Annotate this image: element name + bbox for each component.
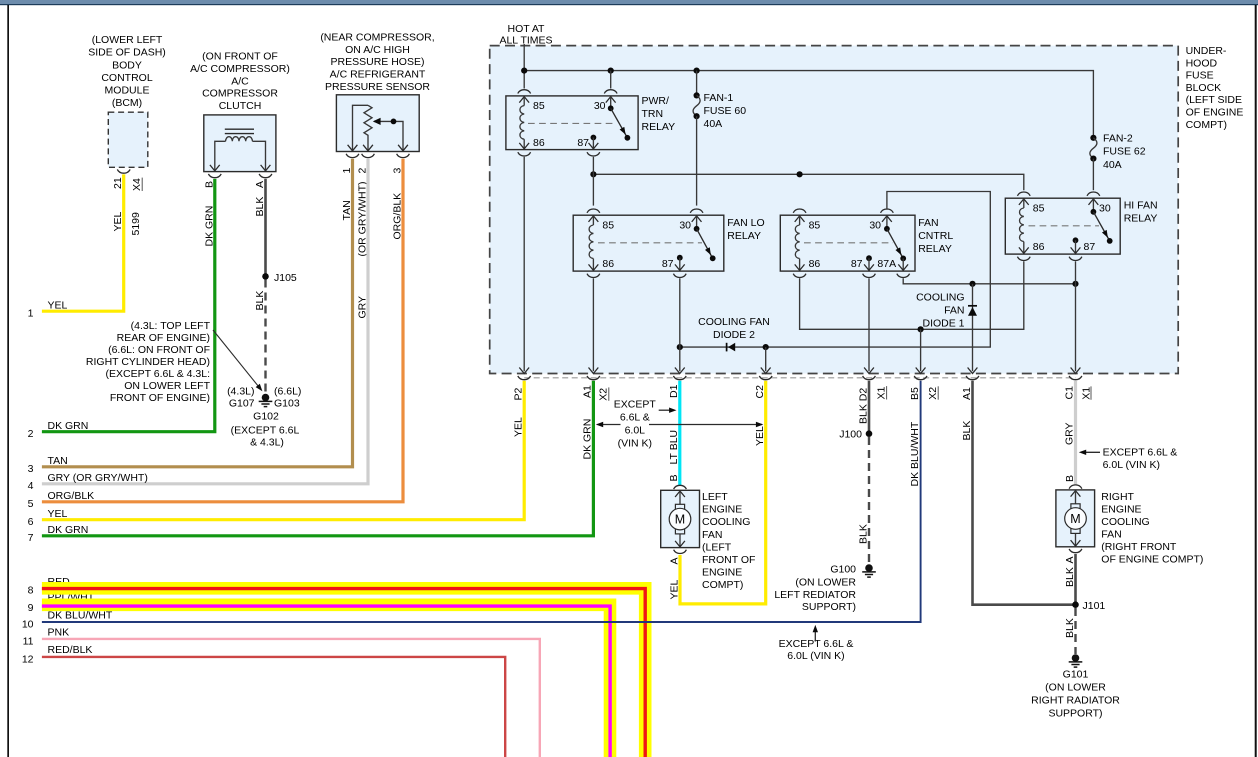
svg-text:BODY: BODY bbox=[112, 59, 142, 71]
svg-text:(EXCEPT 6.6L & 4.3L:: (EXCEPT 6.6L & 4.3L: bbox=[106, 368, 210, 380]
junction dot bus/relay30 bbox=[608, 68, 614, 74]
svg-text:85: 85 bbox=[809, 220, 821, 232]
svg-text:YEL: YEL bbox=[513, 417, 525, 437]
svg-text:DK GRN: DK GRN bbox=[48, 524, 89, 536]
arrow note to D1 bbox=[659, 409, 671, 411]
ground G102 / G107 / G103 bbox=[259, 394, 273, 407]
svg-text:M: M bbox=[675, 513, 685, 527]
svg-text:GRY: GRY bbox=[1063, 422, 1075, 445]
svg-text:REAR OF ENGINE): REAR OF ENGINE) bbox=[117, 332, 210, 344]
wire BLK right fan A to J101 bbox=[1074, 554, 1077, 605]
svg-text:DIODE 1: DIODE 1 bbox=[922, 318, 964, 330]
pin labels FAN CNTRL 85 30 86 87 87A bbox=[809, 220, 896, 271]
wire FAN CNTRL 87 down to BLK D2 bbox=[868, 278, 870, 371]
connector sockets bbox=[518, 376, 1082, 380]
pin 87 FAN LO bbox=[677, 255, 683, 261]
junction dot bus/fuse60 bbox=[694, 68, 700, 74]
svg-text:COOLING: COOLING bbox=[1101, 516, 1149, 528]
svg-text:COMPT): COMPT) bbox=[1186, 119, 1227, 131]
svg-text:ENGINE: ENGINE bbox=[702, 567, 742, 579]
svg-text:BLK: BLK bbox=[961, 421, 973, 441]
label LEFT ENGINE COOLING FAN bbox=[702, 491, 755, 591]
relay FAN CNTRL RELAY bbox=[780, 209, 953, 277]
svg-text:(6.6L): (6.6L) bbox=[274, 386, 301, 398]
svg-text:BLK: BLK bbox=[1064, 618, 1076, 638]
svg-text:6.6L &: 6.6L & bbox=[620, 412, 650, 424]
svg-text:(4.3L: TOP LEFT: (4.3L: TOP LEFT bbox=[131, 320, 211, 332]
label FAN LO RELAY bbox=[727, 217, 764, 242]
svg-text:UNDER-: UNDER- bbox=[1186, 45, 1227, 57]
wire PWR/TRN 86 down to P2 bbox=[523, 157, 525, 371]
svg-text:X2: X2 bbox=[927, 387, 939, 400]
svg-text:7: 7 bbox=[28, 532, 34, 544]
page right border bbox=[1255, 5, 1257, 757]
svg-text:SIDE OF DASH): SIDE OF DASH) bbox=[88, 47, 166, 59]
diode COOLING FAN DIODE 1 bbox=[968, 284, 977, 371]
wire FAN CNTRL 87A to HI FAN 87 bbox=[903, 278, 1075, 284]
svg-text:FRONT OF: FRONT OF bbox=[702, 554, 755, 566]
svg-text:(ON FRONT OF: (ON FRONT OF bbox=[202, 51, 278, 63]
label BODY CONTROL MODULE (BCM) bbox=[88, 34, 166, 109]
svg-text:RELAY: RELAY bbox=[1124, 213, 1158, 225]
svg-text:FAN LO: FAN LO bbox=[727, 217, 764, 229]
svg-text:B: B bbox=[668, 474, 680, 481]
svg-text:FAN-2: FAN-2 bbox=[1103, 133, 1133, 145]
svg-text:40A: 40A bbox=[704, 118, 723, 130]
label UNDER-HOOD FUSE BLOCK bbox=[1186, 45, 1244, 131]
svg-text:86: 86 bbox=[533, 137, 545, 149]
arrow note to G102 bbox=[213, 330, 260, 388]
label A/C COMPRESSOR CLUTCH bbox=[190, 51, 290, 113]
wire BLK dashed J101 to G101 bbox=[1074, 608, 1076, 654]
svg-text:87: 87 bbox=[662, 258, 674, 270]
junction J100 bbox=[866, 430, 873, 437]
svg-text:(EXCEPT 6.6L: (EXCEPT 6.6L bbox=[231, 425, 300, 437]
svg-text:CLUTCH: CLUTCH bbox=[219, 100, 262, 112]
svg-text:SUPPORT): SUPPORT) bbox=[802, 601, 856, 613]
svg-text:ORG/BLK: ORG/BLK bbox=[48, 490, 95, 502]
svg-text:ON A/C HIGH: ON A/C HIGH bbox=[345, 44, 410, 56]
wire 11 PNK bbox=[42, 639, 540, 757]
svg-text:FUSE 62: FUSE 62 bbox=[1103, 146, 1146, 158]
junction dot diode2 right / C2 tap bbox=[763, 344, 769, 350]
svg-text:HOOD: HOOD bbox=[1186, 57, 1218, 69]
svg-text:HOT AT: HOT AT bbox=[508, 23, 546, 35]
svg-text:J105: J105 bbox=[274, 272, 297, 284]
note engine ground locations bbox=[86, 320, 211, 404]
svg-text:COMPT): COMPT) bbox=[702, 579, 743, 591]
svg-text:J100: J100 bbox=[839, 429, 862, 441]
svg-text:6.0L (VIN K): 6.0L (VIN K) bbox=[787, 650, 844, 662]
wire 8 RED highlighted bbox=[42, 588, 645, 757]
wire YEL C2 to left fan A bbox=[680, 381, 766, 604]
wire LT BLU D1 to left fan bbox=[678, 381, 681, 485]
pin 87 HI FAN bbox=[1073, 237, 1079, 243]
wire FAN LO 87 down to D1 bbox=[679, 278, 681, 371]
svg-text:1: 1 bbox=[28, 308, 34, 320]
svg-text:86: 86 bbox=[809, 258, 821, 270]
svg-text:COMPRESSOR: COMPRESSOR bbox=[202, 88, 278, 100]
junction J101 bbox=[1072, 601, 1079, 608]
connector sockets sensor pins 1 2 3 bbox=[346, 154, 359, 158]
svg-text:FRONT OF ENGINE): FRONT OF ENGINE) bbox=[110, 392, 210, 404]
wire BLK compressor A to J105 bbox=[264, 179, 267, 277]
svg-text:ENGINE: ENGINE bbox=[1101, 504, 1141, 516]
svg-text:30: 30 bbox=[1099, 203, 1111, 215]
pin 87 FAN CNTRL bbox=[866, 255, 872, 261]
fuse FAN-1 FUSE 60 40A bbox=[693, 71, 700, 206]
svg-text:YEL: YEL bbox=[669, 579, 681, 599]
wire 3 TAN sensor 1 to edge bbox=[42, 159, 353, 467]
svg-text:EXCEPT 6.6L &: EXCEPT 6.6L & bbox=[779, 638, 854, 650]
svg-text:G100: G100 bbox=[830, 564, 856, 576]
svg-text:DK GRN: DK GRN bbox=[582, 419, 594, 460]
svg-text:OF ENGINE: OF ENGINE bbox=[1186, 107, 1244, 119]
svg-text:X4: X4 bbox=[131, 178, 143, 191]
svg-text:(ON LOWER: (ON LOWER bbox=[1045, 681, 1106, 693]
pin 30 PWR/TRN bbox=[604, 90, 617, 94]
wire FAN CNTRL 30 loop to diode 2 row bbox=[680, 192, 991, 348]
svg-text:YEL: YEL bbox=[48, 508, 68, 520]
label FAN-1 FUSE 60 40A bbox=[704, 92, 747, 130]
pin labels FAN LO 85 30 86 87 bbox=[602, 220, 691, 271]
junction dot 87A row / HI FAN 87 bbox=[1072, 281, 1078, 287]
svg-text:(VIN K): (VIN K) bbox=[618, 437, 652, 449]
svg-text:PWR/: PWR/ bbox=[642, 95, 669, 107]
svg-text:DK BLU/WHT: DK BLU/WHT bbox=[48, 610, 113, 622]
component A/C refrigerant pressure sensor bbox=[336, 95, 419, 152]
fuse FAN-2 FUSE 62 40A bbox=[1090, 135, 1097, 191]
svg-text:A/C COMPRESSOR): A/C COMPRESSOR) bbox=[190, 63, 290, 75]
junction dot bus/feed bbox=[521, 68, 527, 74]
wire 10 DK BLU/WHT edge to B5 bbox=[42, 381, 921, 622]
svg-text:87A: 87A bbox=[877, 258, 896, 270]
svg-text:FAN: FAN bbox=[1101, 528, 1121, 540]
svg-text:(BCM): (BCM) bbox=[112, 97, 142, 109]
junction dot 86 net / B5 tap bbox=[918, 326, 924, 332]
wire 7 DK GRN A1 to edge bbox=[42, 381, 594, 536]
svg-text:G102: G102 bbox=[253, 411, 279, 423]
svg-text:85: 85 bbox=[1033, 203, 1045, 215]
svg-text:PRESSURE SENSOR: PRESSURE SENSOR bbox=[325, 81, 430, 93]
relay HI FAN RELAY bbox=[1005, 192, 1157, 260]
svg-text:(ON LOWER: (ON LOWER bbox=[795, 576, 856, 588]
label HI FAN RELAY bbox=[1124, 200, 1158, 225]
svg-text:DK BLU/WHT: DK BLU/WHT bbox=[909, 421, 921, 486]
svg-text:87: 87 bbox=[1084, 241, 1096, 253]
svg-text:CONTROL: CONTROL bbox=[101, 72, 152, 84]
motor M2 right engine cooling fan bbox=[1056, 485, 1095, 553]
window top strip bbox=[0, 0, 1258, 4]
svg-text:5: 5 bbox=[28, 498, 34, 510]
wire C2 stub bbox=[765, 347, 767, 371]
svg-text:SUPPORT): SUPPORT) bbox=[1048, 707, 1102, 719]
svg-text:2: 2 bbox=[28, 428, 34, 440]
wire top supply bus bbox=[524, 71, 1093, 137]
arrow note to GRY wire bbox=[1082, 451, 1101, 453]
svg-text:85: 85 bbox=[602, 220, 614, 232]
svg-text:LT BLU: LT BLU bbox=[668, 430, 680, 465]
wire B5 stub bbox=[920, 329, 922, 371]
svg-text:A/C REFRIGERANT: A/C REFRIGERANT bbox=[330, 69, 426, 81]
wire hot feed into fuse block bbox=[523, 44, 525, 89]
wire FAN LO 86 down to A1 bbox=[592, 278, 594, 371]
svg-text:12: 12 bbox=[22, 654, 34, 666]
arrow note to A1 and C2 bbox=[598, 424, 621, 426]
svg-text:87: 87 bbox=[577, 137, 589, 149]
svg-text:BLK: BLK bbox=[254, 291, 266, 311]
svg-text:HI FAN: HI FAN bbox=[1124, 200, 1158, 212]
page left border bbox=[7, 5, 9, 757]
connector sockets compressor pins B A bbox=[208, 174, 221, 178]
svg-text:6.0L (VIN K): 6.0L (VIN K) bbox=[1103, 459, 1160, 471]
svg-text:GRY (OR GRY/WHT): GRY (OR GRY/WHT) bbox=[48, 472, 148, 484]
wire GRY C1 to right fan bbox=[1074, 381, 1077, 485]
wire 1 YEL BCM to edge bbox=[42, 174, 124, 311]
pin labels PWR/TRN 85 30 86 87 bbox=[533, 100, 606, 149]
note EXCEPT 6.6L 6.0L (VIN K) left bbox=[614, 399, 657, 450]
wire BLK dashed J100 to G100 bbox=[868, 437, 870, 564]
label FAN-2 FUSE 62 40A bbox=[1103, 133, 1146, 172]
svg-text:RELAY: RELAY bbox=[642, 121, 676, 133]
svg-text:BLOCK: BLOCK bbox=[1186, 82, 1222, 94]
module U1 BCM (dashed connector box) bbox=[108, 112, 148, 167]
svg-text:G103: G103 bbox=[274, 398, 300, 410]
svg-text:(LEFT SIDE: (LEFT SIDE bbox=[1186, 94, 1242, 106]
label COOLING FAN DIODE 2 bbox=[698, 316, 770, 341]
svg-text:J101: J101 bbox=[1083, 600, 1106, 612]
svg-text:6.0L: 6.0L bbox=[625, 425, 646, 437]
wire HI FAN 87 down to C1 bbox=[1075, 261, 1077, 371]
wire bus to PWR/TRN pin 30 bbox=[610, 71, 612, 89]
wire 6 YEL P2 to edge bbox=[42, 381, 524, 520]
svg-text:RIGHT: RIGHT bbox=[1101, 491, 1134, 503]
svg-text:COOLING FAN: COOLING FAN bbox=[698, 316, 770, 328]
svg-text:30: 30 bbox=[869, 220, 881, 232]
junction J105 bbox=[262, 273, 269, 280]
svg-text:RELAY: RELAY bbox=[727, 230, 761, 242]
pin 87A FAN CNTRL bbox=[900, 256, 906, 262]
svg-text:FAN: FAN bbox=[918, 217, 938, 229]
ground G100 bbox=[862, 564, 876, 577]
svg-text:COOLING: COOLING bbox=[702, 516, 750, 528]
svg-text:3: 3 bbox=[28, 463, 34, 475]
junction dot 87A row / diode 1 bbox=[969, 281, 975, 287]
svg-text:ENGINE: ENGINE bbox=[702, 504, 742, 516]
svg-text:BLK D2: BLK D2 bbox=[857, 388, 869, 424]
svg-text:86: 86 bbox=[1033, 241, 1045, 253]
arrow note to wire 10 bbox=[814, 629, 816, 642]
svg-text:LEFT REDIATOR: LEFT REDIATOR bbox=[774, 589, 856, 601]
svg-text:ON LOWER LEFT: ON LOWER LEFT bbox=[124, 380, 210, 392]
svg-text:RED/BLK: RED/BLK bbox=[48, 644, 93, 656]
svg-text:(LOWER LEFT: (LOWER LEFT bbox=[92, 34, 163, 46]
connector row arrows at fuse block border bbox=[519, 368, 1080, 374]
svg-text:ALL TIMES: ALL TIMES bbox=[499, 35, 552, 47]
svg-text:A/C: A/C bbox=[231, 75, 249, 87]
wire 12 RED/BLK bbox=[42, 657, 505, 757]
svg-text:40A: 40A bbox=[1103, 159, 1122, 171]
wire relay coil bus (87 of PWR/TRN to 85 pins) bbox=[593, 174, 1023, 190]
label COOLING FAN DIODE 1 bbox=[916, 292, 965, 330]
wire BLK A1 to J101 bbox=[973, 381, 1074, 605]
svg-text:30: 30 bbox=[594, 100, 606, 112]
svg-text:YEL: YEL bbox=[754, 426, 766, 446]
svg-text:G101: G101 bbox=[1063, 668, 1089, 680]
svg-text:87: 87 bbox=[851, 258, 863, 270]
svg-text:YEL: YEL bbox=[48, 300, 68, 312]
junction dot coil bus left bbox=[590, 171, 596, 177]
wire BLK D2 to J100 bbox=[868, 381, 871, 434]
relay PWR/TRN RELAY bbox=[506, 90, 675, 156]
svg-text:RELAY: RELAY bbox=[918, 243, 952, 255]
svg-text:RIGHT RADIATOR: RIGHT RADIATOR bbox=[1031, 695, 1120, 707]
note EXCEPT 6.6L 6.0L (VIN K) right bbox=[1103, 447, 1178, 472]
label PWR/TRN RELAY bbox=[642, 95, 676, 133]
motor M1 left engine cooling fan bbox=[661, 485, 700, 553]
junction dot coil bus / fan cntrl 85 bbox=[797, 171, 803, 177]
pin 30 FAN LO bbox=[690, 209, 703, 213]
svg-text:FUSE 60: FUSE 60 bbox=[704, 105, 747, 117]
svg-text:5199: 5199 bbox=[130, 212, 142, 236]
svg-text:DIODE 2: DIODE 2 bbox=[713, 329, 755, 341]
junction dot diode2 left / FAN LO 87 bbox=[677, 344, 683, 350]
svg-text:B5: B5 bbox=[909, 387, 921, 400]
label A/C REFRIGERANT PRESSURE SENSOR bbox=[320, 31, 434, 93]
svg-text:10: 10 bbox=[22, 619, 34, 631]
svg-text:(RIGHT FRONT: (RIGHT FRONT bbox=[1101, 541, 1177, 553]
svg-text:FAN-1: FAN-1 bbox=[704, 92, 734, 104]
node HOT AT ALL TIMES label bbox=[499, 23, 552, 47]
svg-text:A1: A1 bbox=[582, 385, 594, 398]
svg-text:OF ENGINE COMPT): OF ENGINE COMPT) bbox=[1101, 553, 1203, 565]
svg-text:8: 8 bbox=[28, 585, 34, 597]
svg-text:(NEAR COMPRESSOR,: (NEAR COMPRESSOR, bbox=[320, 31, 434, 43]
ground G101 bbox=[1069, 654, 1083, 667]
svg-text:A: A bbox=[669, 557, 681, 564]
svg-text:B: B bbox=[1064, 475, 1076, 482]
svg-text:PNK: PNK bbox=[48, 626, 70, 638]
svg-text:RIGHT CYLINDER HEAD): RIGHT CYLINDER HEAD) bbox=[86, 356, 210, 368]
svg-text:M: M bbox=[1070, 512, 1080, 526]
svg-text:(6.6L: ON FRONT OF: (6.6L: ON FRONT OF bbox=[108, 344, 210, 356]
underhood fuse block (dashed blue box) bbox=[490, 46, 1178, 374]
svg-text:& 4.3L): & 4.3L) bbox=[250, 437, 284, 449]
svg-text:EXCEPT 6.6L &: EXCEPT 6.6L & bbox=[1103, 447, 1178, 459]
svg-text:FAN: FAN bbox=[702, 529, 722, 541]
svg-text:4: 4 bbox=[28, 480, 34, 492]
wire 2 DK GRN compressor B to edge bbox=[42, 179, 215, 432]
wire 9 PPL/WHT highlighted bbox=[42, 605, 610, 757]
svg-text:CNTRL: CNTRL bbox=[918, 230, 953, 242]
connector strip dashed line bbox=[524, 377, 1075, 379]
wire FAN CNTRL 86 to HI FAN 86 bbox=[800, 261, 1024, 329]
svg-text:9: 9 bbox=[28, 602, 34, 614]
svg-text:(LEFT: (LEFT bbox=[702, 541, 732, 553]
wire 5 ORG/BLK sensor 3 to edge bbox=[42, 159, 403, 502]
svg-text:BLK: BLK bbox=[857, 524, 869, 544]
svg-text:PRESSURE HOSE): PRESSURE HOSE) bbox=[331, 56, 425, 68]
svg-text:86: 86 bbox=[602, 258, 614, 270]
label FAN CNTRL RELAY bbox=[918, 217, 953, 255]
svg-text:30: 30 bbox=[679, 220, 691, 232]
pin labels HI FAN 85 30 86 87 bbox=[1033, 203, 1111, 254]
note EXCEPT 6.6L 6.0L (VIN K) bottom bbox=[779, 638, 854, 662]
svg-text:85: 85 bbox=[533, 100, 545, 112]
svg-text:MODULE: MODULE bbox=[105, 85, 150, 97]
wire BLK dashed J105 to G102 bbox=[264, 280, 266, 393]
svg-text:X2: X2 bbox=[598, 388, 610, 401]
svg-text:DK GRN: DK GRN bbox=[48, 420, 89, 432]
component A/C compressor clutch coil bbox=[204, 115, 276, 172]
svg-text:FUSE: FUSE bbox=[1186, 70, 1214, 82]
label RIGHT ENGINE COOLING FAN bbox=[1101, 491, 1203, 565]
svg-text:C1: C1 bbox=[1063, 386, 1075, 400]
relay FAN LO RELAY bbox=[573, 209, 764, 277]
svg-text:11: 11 bbox=[23, 636, 34, 648]
svg-text:FAN: FAN bbox=[944, 305, 964, 317]
wire 4 GRY sensor 2 to edge bbox=[42, 159, 368, 484]
svg-text:EXCEPT: EXCEPT bbox=[614, 399, 657, 411]
svg-text:6: 6 bbox=[28, 516, 34, 528]
svg-text:(4.3L): (4.3L) bbox=[227, 386, 254, 398]
pin 30 FAN CNTRL bbox=[881, 209, 894, 213]
svg-text:COOLING: COOLING bbox=[916, 292, 964, 304]
svg-text:G107: G107 bbox=[229, 398, 255, 410]
diode COOLING FAN DIODE 2 bbox=[727, 343, 736, 352]
svg-text:LEFT: LEFT bbox=[702, 491, 728, 503]
svg-text:X1: X1 bbox=[875, 386, 887, 399]
connector socket BCM pin 21 bbox=[117, 169, 130, 173]
svg-text:TAN: TAN bbox=[48, 455, 68, 467]
svg-text:TRN: TRN bbox=[642, 108, 664, 120]
pin 30 HI FAN bbox=[1087, 192, 1100, 196]
wire PWR/TRN 87 to FAN LO 85 bbox=[592, 157, 594, 206]
pin 87 PWR/TRN bbox=[591, 135, 597, 141]
